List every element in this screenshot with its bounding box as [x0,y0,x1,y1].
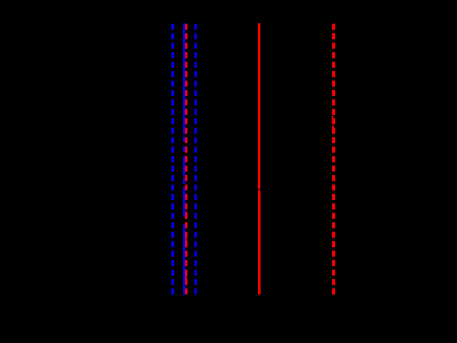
red solid vline x=259.3 (lower segment) [258,191,261,295]
red solid vline pinch connector y~189-191 [258,188,260,191]
blue dashed vline (right CI bound, faint twin) x=195.2 [194,24,196,295]
blue dashed vline (left CI bound) x=172.9 [172,24,174,295]
extra beat dash, right red group y~116-122 [332,116,334,122]
blue dashed vline (right CI bound) x=195.7 [195,24,197,295]
extra beat dash, left red group y~275-279 [185,275,187,279]
red solid vline x=259.2 (upper segment) [258,23,261,188]
extra beat dot, right red group y~125-128 [332,126,334,129]
blue dashed vline (left CI bound, faint twin) x=172.2 [171,24,173,295]
red dashed vline (right group, main) x=333.9 [333,24,335,295]
red dashed vline (true value, left group) x=186.35 [185,24,187,295]
blue mostly-solid vline (posterior mean) x=184.1 [183,23,185,295]
extra beat dash, left red group y~211-214 [185,212,187,215]
extra beat dash, left red group y~237-241 [185,238,187,242]
red dashed vline (right group, faint left twin) x=332.7 [332,24,334,295]
red dashed vline (left group, faint twin) x=185.9 [185,24,187,295]
